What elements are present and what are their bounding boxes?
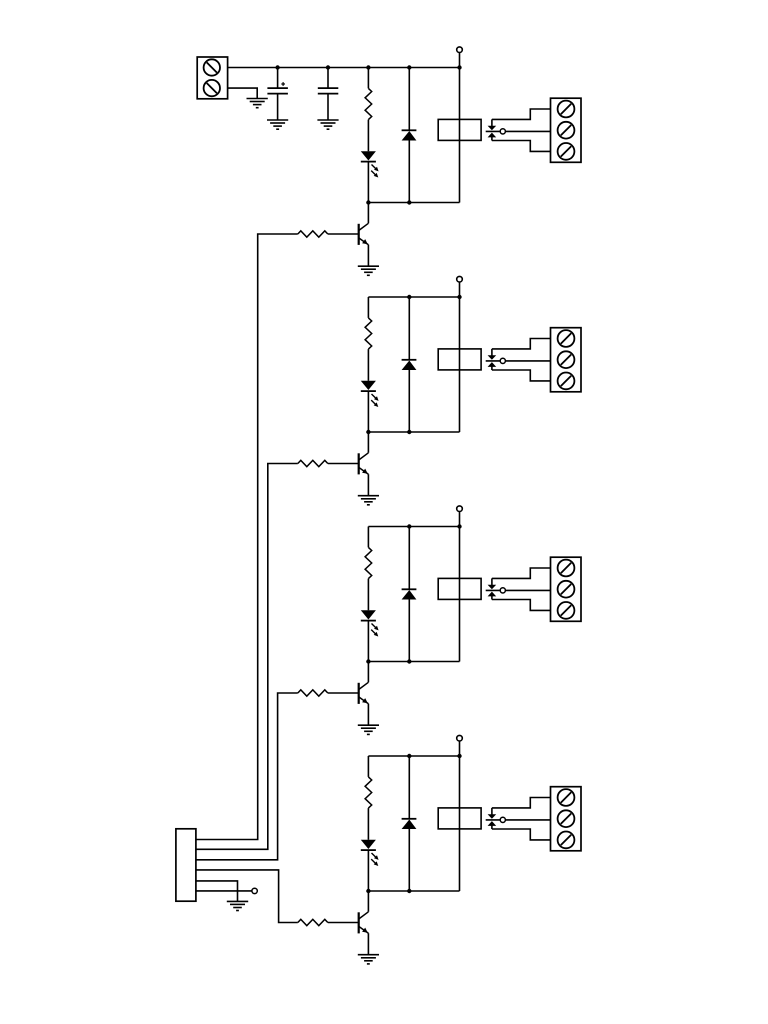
ground Q4 emitter bbox=[358, 954, 379, 956]
junction rail-relay ch4 bbox=[457, 754, 461, 758]
resistor R3 LED series bbox=[365, 318, 372, 349]
resistor R6 base bbox=[298, 690, 328, 696]
wire bottom rail to Q4 collector bbox=[367, 891, 369, 912]
relay K1 contact common bbox=[491, 119, 493, 126]
connector J2 control input header bbox=[176, 829, 196, 901]
junction bottom-diode ch2 bbox=[407, 430, 411, 434]
wire contact NC to terminal ch4 bbox=[492, 798, 551, 808]
relay K4 contact common bbox=[491, 808, 493, 815]
resistor R5 LED series bbox=[365, 547, 372, 578]
wire +V rail channel 3 bbox=[368, 526, 459, 528]
wire bottom rail to Q3 collector bbox=[367, 662, 369, 683]
wire R8 to Q4 base bbox=[328, 922, 359, 924]
junction rail-diode ch1 bbox=[407, 65, 411, 69]
junction bottom-diode ch3 bbox=[407, 659, 411, 663]
resistor R7 LED series bbox=[365, 777, 372, 808]
ground Q2 emitter bbox=[358, 495, 379, 497]
wire rail to R5 ch3 bbox=[367, 527, 369, 548]
wire contact NO to terminal ch2 bbox=[492, 370, 551, 381]
wire diode to bottom rail ch4 bbox=[408, 829, 410, 891]
relay K4 coil bbox=[438, 808, 481, 829]
wire rail to diode D6 ch3 bbox=[408, 527, 410, 590]
resistor R4 base bbox=[298, 460, 328, 466]
wire R2 to Q1 base bbox=[328, 233, 359, 235]
wire relay coil ch4 bbox=[459, 756, 461, 891]
transistor Q1 NPN bbox=[358, 224, 360, 245]
diode D8 flyback bbox=[402, 818, 417, 820]
wire LED to bottom rail ch3 bbox=[367, 621, 369, 662]
wire diode to bottom rail ch1 bbox=[408, 141, 410, 203]
junction bottom-LED ch3 bbox=[366, 659, 370, 663]
junction bottom-diode ch4 bbox=[407, 889, 411, 893]
wire R7 to LED D7 bbox=[367, 808, 369, 840]
wire relay coil ch3 bbox=[459, 527, 461, 662]
wire bottom rail to Q1 collector bbox=[367, 203, 369, 224]
relay K3 coil bbox=[438, 578, 481, 599]
wire rail to R3 ch2 bbox=[367, 297, 369, 318]
junction rail-diode ch4 bbox=[407, 754, 411, 758]
relay K2 coil bbox=[438, 349, 481, 370]
capacitor C2 bbox=[327, 68, 329, 89]
wire J2 pin6 bbox=[196, 890, 252, 892]
wire LED to bottom rail ch1 bbox=[367, 162, 369, 203]
relay K1 coil bbox=[438, 119, 481, 140]
wire Q3 emitter to ground bbox=[367, 704, 369, 725]
wire rail to R1 ch1 bbox=[367, 68, 369, 89]
junction rail-C1 bbox=[275, 65, 279, 69]
transistor Q2 NPN bbox=[358, 453, 360, 474]
wire collector rail ch1 bbox=[368, 202, 459, 204]
diode D6 flyback bbox=[402, 588, 417, 590]
wire collector rail ch4 bbox=[368, 890, 459, 892]
LED D5 bbox=[361, 610, 376, 619]
transistor Q4 NPN bbox=[358, 912, 360, 933]
wire contact NC to terminal ch3 bbox=[492, 568, 551, 578]
resistor R1 LED series bbox=[365, 88, 372, 119]
wire diode to bottom rail ch3 bbox=[408, 600, 410, 662]
ground C2 bbox=[317, 119, 338, 121]
wire Q4 emitter to ground bbox=[367, 933, 369, 954]
transistor Q3 NPN bbox=[358, 683, 360, 704]
junction rail-diode ch2 bbox=[407, 295, 411, 299]
wire R1 to LED D1 bbox=[367, 120, 369, 152]
wire +V rail channel 2 bbox=[368, 296, 459, 298]
ground Q1 emitter bbox=[358, 265, 379, 267]
diode D2 flyback bbox=[402, 129, 417, 131]
wire R4 to Q2 base bbox=[328, 463, 359, 465]
wire J2 pin5 to ground bbox=[196, 881, 238, 901]
ground Q3 emitter bbox=[358, 724, 379, 726]
resistor R2 base bbox=[298, 231, 328, 237]
junction rail-C2 bbox=[326, 65, 330, 69]
connector TB2 3-pin output screw terminal bbox=[551, 328, 582, 392]
node +V terminal ch1 bbox=[457, 47, 463, 53]
wire Q1 emitter to ground bbox=[367, 245, 369, 266]
junction rail-R1 ch1 bbox=[366, 65, 370, 69]
wire R6 to Q3 base bbox=[328, 692, 359, 694]
wire rail to diode D8 ch4 bbox=[408, 756, 410, 819]
wire IN2 from J2 pin 2 to R4 base resistor bbox=[196, 464, 298, 850]
wire collector rail ch2 bbox=[368, 431, 459, 433]
wire IN1 from J2 pin 1 to R2 base resistor bbox=[196, 234, 298, 840]
junction bottom-LED ch1 bbox=[366, 200, 370, 204]
wire R5 to LED D5 bbox=[367, 579, 369, 611]
node +V terminal ch4 bbox=[457, 735, 463, 741]
resistor R8 base bbox=[298, 919, 328, 925]
capacitor C1 electrolytic bbox=[277, 68, 279, 89]
connector TB1 3-pin output screw terminal bbox=[551, 98, 582, 162]
wire bottom rail to Q2 collector bbox=[367, 432, 369, 453]
relay K3 contact common bbox=[491, 578, 493, 585]
wire rail to R7 ch4 bbox=[367, 756, 369, 777]
connector TB3 3-pin output screw terminal bbox=[551, 557, 582, 621]
junction bottom-diode ch1 bbox=[407, 200, 411, 204]
relay K2 contact common bbox=[491, 349, 493, 356]
wire collector rail ch3 bbox=[368, 661, 459, 663]
diode D4 flyback bbox=[402, 359, 417, 361]
wire diode to bottom rail ch2 bbox=[408, 370, 410, 432]
wire IN3 from J2 pin 3 to R6 base resistor bbox=[196, 693, 298, 860]
wire +V rail channel 4 bbox=[368, 755, 459, 757]
LED D3 bbox=[361, 381, 376, 390]
wire IN4 from J2 pin 4 to R8 base resistor bbox=[196, 870, 298, 923]
wire LED to bottom rail ch2 bbox=[367, 391, 369, 432]
ground J2 bbox=[227, 900, 248, 902]
ground input GND bbox=[247, 98, 268, 100]
wire Q2 emitter to ground bbox=[367, 474, 369, 495]
wire +V rail channel 1 bbox=[228, 67, 460, 69]
wire contact NO to terminal ch3 bbox=[492, 600, 551, 611]
wire LED to bottom rail ch4 bbox=[367, 850, 369, 891]
junction rail-relay ch3 bbox=[457, 524, 461, 528]
junction bottom-LED ch4 bbox=[366, 889, 370, 893]
wire contact NC to terminal ch1 bbox=[492, 109, 551, 119]
node +V terminal ch3 bbox=[457, 506, 463, 512]
LED D1 bbox=[361, 151, 376, 160]
wire relay coil ch1 bbox=[459, 68, 461, 203]
wire R3 to LED D3 bbox=[367, 349, 369, 381]
wire contact NO to terminal ch1 bbox=[492, 141, 551, 152]
wire J1 pin2 to ground bbox=[228, 88, 258, 98]
wire contact NO to terminal ch4 bbox=[492, 829, 551, 840]
node +V terminal ch2 bbox=[457, 276, 463, 282]
ground C1 bbox=[267, 119, 288, 121]
connector TB4 3-pin output screw terminal bbox=[551, 787, 582, 851]
wire contact NC to terminal ch2 bbox=[492, 339, 551, 349]
junction rail-relay ch2 bbox=[457, 295, 461, 299]
junction bottom-LED ch2 bbox=[366, 430, 370, 434]
wire rail to diode D2 ch1 bbox=[408, 68, 410, 131]
connector J1 2-pin power input screw terminal bbox=[197, 57, 227, 99]
wire rail to diode D4 ch2 bbox=[408, 297, 410, 360]
junction rail-diode ch3 bbox=[407, 524, 411, 528]
node open terminal J2 pin6 bbox=[252, 888, 257, 893]
wire relay coil ch2 bbox=[459, 297, 461, 432]
LED D7 bbox=[361, 840, 376, 849]
junction rail-relay ch1 bbox=[457, 65, 461, 69]
